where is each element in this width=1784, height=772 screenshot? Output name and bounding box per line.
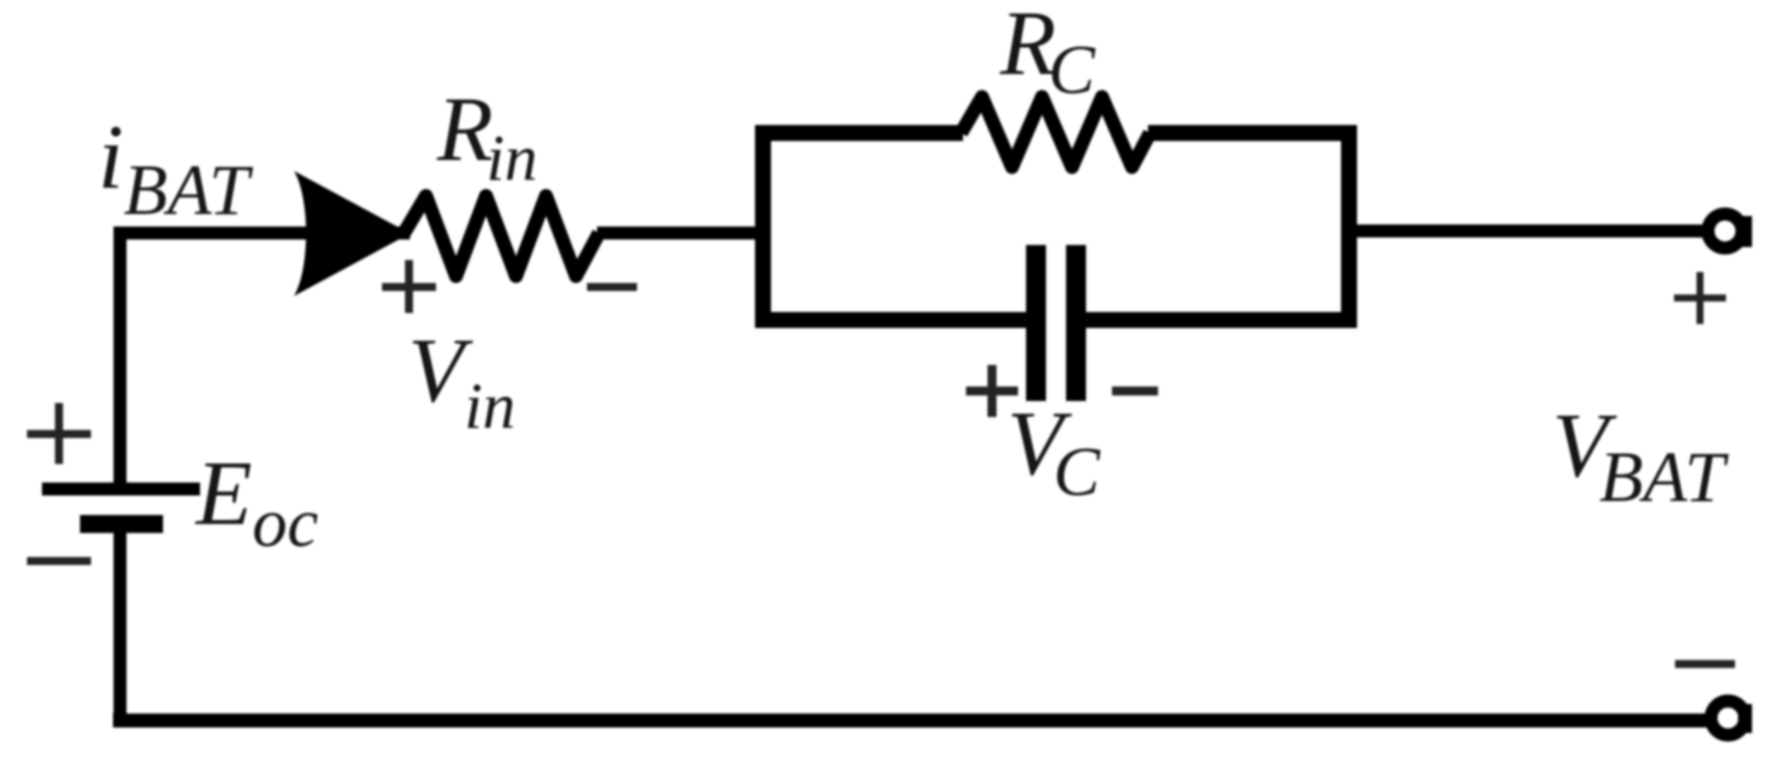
plus sign for Vin — [382, 260, 436, 313]
wire: box bottom edge right segment from capacitor — [1076, 312, 1357, 328]
plus sign for VC — [966, 365, 1018, 417]
minus sign for VC — [1112, 387, 1158, 396]
minus sign for VBAT — [1675, 660, 1735, 668]
plus sign for VBAT — [1674, 272, 1726, 324]
battery E_oc short plate (-) — [80, 515, 163, 533]
wire: box bottom edge left segment to capacitor — [755, 312, 1036, 328]
terminal: positive output circle — [1708, 214, 1742, 248]
RC parallel block: left edge of box — [755, 125, 771, 328]
wire: left vertical from battery - plate down to bottom wire — [114, 524, 127, 721]
wire: output from box to positive terminal — [1349, 225, 1704, 238]
current direction arrowhead for i_BAT — [294, 171, 410, 296]
terminal: negative output circle — [1711, 701, 1745, 735]
wire: bottom horizontal from battery to negative terminal — [120, 713, 1706, 721]
terminal stub right of positive circle — [1736, 216, 1752, 247]
battery E_oc long plate (+) — [42, 483, 200, 496]
capacitor C left plate — [1026, 245, 1046, 401]
capacitor C right plate — [1066, 245, 1086, 401]
resistor Rin zigzag — [404, 196, 599, 276]
wire: left vertical from top wire down to battery + plate — [114, 233, 127, 489]
wire: from Rin to parallel RC box — [597, 227, 763, 240]
minus sign at battery — [27, 557, 91, 565]
wire: box top edge left segment — [755, 125, 963, 141]
minus sign for Vin — [587, 283, 637, 291]
plus sign at battery — [27, 403, 91, 464]
resistor RC zigzag on box top edge — [961, 97, 1150, 167]
wire: box top edge right segment — [1148, 125, 1357, 141]
terminal stub right of negative circle — [1738, 704, 1752, 733]
wire: top-left horizontal from battery corner to resistor Rin — [120, 233, 410, 240]
RC parallel block: right edge of box — [1341, 125, 1357, 328]
